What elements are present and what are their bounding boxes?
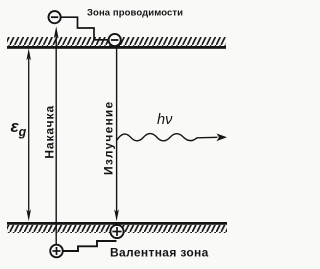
svg-text:Накачка: Накачка xyxy=(43,105,57,159)
electron e1 free above band xyxy=(49,11,61,23)
svg-text:Зона проводимости: Зона проводимости xyxy=(87,8,183,19)
valence band hatch xyxy=(7,225,227,233)
electron e2 on conduction band xyxy=(109,34,121,46)
pump arrow (Nakachka) xyxy=(54,26,59,244)
emission arrow (Izluchenie) xyxy=(114,47,119,222)
valence band edge line xyxy=(7,222,227,225)
wire from e1 to e2 (stepped) xyxy=(61,17,109,40)
svg-text:Излучение: Излучение xyxy=(102,101,116,175)
wire from h1 to h2 (stepped) xyxy=(63,241,117,251)
conduction band hatch xyxy=(7,37,226,46)
svg-text:Валентная зона: Валентная зона xyxy=(110,246,209,260)
band gap arrow eps_g xyxy=(26,48,31,221)
hole h2 in valence band xyxy=(110,225,123,238)
svg-text:εg: εg xyxy=(11,117,27,139)
conduction band edge line xyxy=(7,46,226,49)
photon wavy arrow h nu xyxy=(117,134,227,142)
hole h1 below valence band xyxy=(50,245,63,258)
svg-text:hν: hν xyxy=(157,112,173,128)
